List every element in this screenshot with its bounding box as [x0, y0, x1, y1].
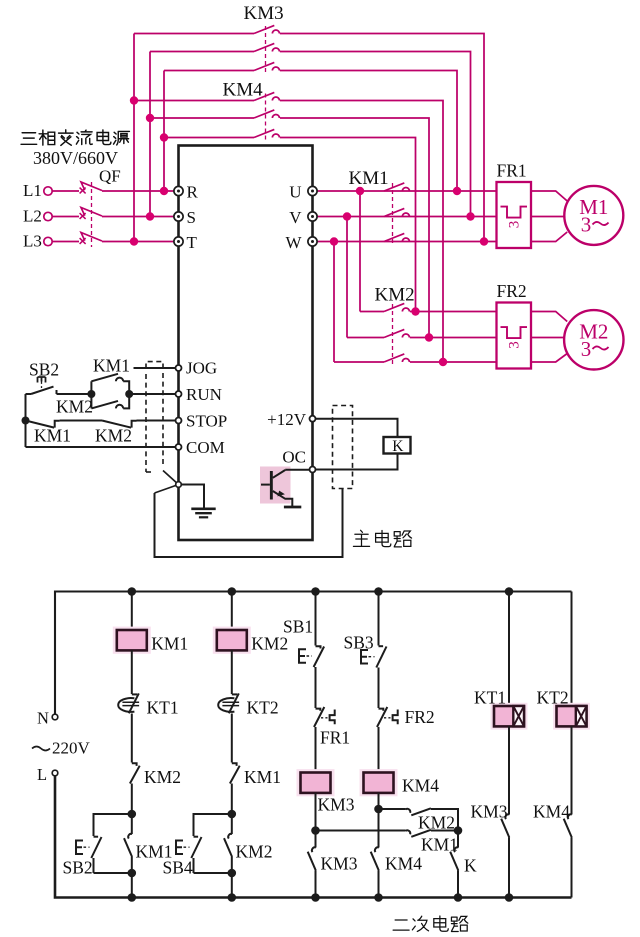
svg-text:STOP: STOP [186, 412, 227, 431]
svg-text:L3: L3 [23, 232, 42, 251]
relay K [384, 437, 411, 454]
node V drop [343, 212, 351, 220]
wire COM [26, 446, 176, 448]
contact KM1 interlock horizontal [316, 830, 406, 832]
svg-text:FR2: FR2 [497, 281, 527, 301]
svg-text:L: L [37, 765, 47, 784]
svg-text:SB3: SB3 [344, 633, 374, 653]
wire branch7 top [571, 592, 573, 707]
terminal +12V [310, 416, 316, 422]
terminal OC [310, 467, 316, 473]
terminal N [52, 714, 58, 720]
wires FR2 to motor M2 [531, 312, 567, 322]
svg-text:3: 3 [581, 337, 592, 361]
wire U to KM2 row1 drop [359, 191, 361, 312]
wire shield to bottom loop [155, 489, 343, 558]
svg-text:220V: 220V [52, 739, 91, 758]
contactor KM3 linkage [265, 26, 267, 73]
svg-text:KM2: KM2 [375, 285, 415, 306]
contact K NO [457, 831, 459, 848]
wire branch1 top [131, 592, 133, 631]
wire top rail secondary [55, 592, 572, 715]
svg-text:JOG: JOG [186, 359, 217, 378]
coil KM3 [297, 769, 335, 796]
wire branch1 bottom [131, 857, 133, 898]
breaker QF pole L1 [52, 190, 79, 192]
overload relay FR2 [497, 303, 532, 369]
contactor KM1 pole W [384, 233, 404, 241]
motor M2 [564, 310, 623, 369]
label secondary circuit [393, 920, 409, 930]
node run right [125, 390, 133, 398]
svg-text:V: V [289, 208, 302, 227]
terminal R [174, 186, 183, 195]
terminal STOP [176, 418, 182, 424]
wire W output [317, 241, 496, 243]
wire branch1 mid1 [131, 650, 133, 694]
wire V to KM2 row2 drop [346, 217, 348, 338]
svg-text:K: K [464, 856, 477, 876]
coil KT2 timer [553, 703, 590, 730]
svg-text:U: U [289, 183, 301, 202]
svg-text:KM4: KM4 [385, 854, 422, 874]
wire vertical T-phase riser [133, 34, 135, 242]
terminal L3 [44, 237, 52, 245]
terminal JOG [176, 365, 182, 371]
breaker QF pole L2 [52, 216, 79, 218]
wire vertical R-phase riser [163, 71, 165, 192]
wire KM2 row1 [360, 311, 384, 313]
wire KM3 row2 (S to V bypass) [150, 51, 254, 53]
node KM3 to V [466, 212, 474, 220]
breaker QF linkage [91, 182, 93, 247]
svg-text:3: 3 [507, 221, 523, 229]
wire interlock right [431, 809, 458, 831]
node run left [87, 390, 95, 398]
svg-text:SB2: SB2 [63, 858, 93, 878]
contactor KM1 pole V [384, 208, 404, 216]
svg-text:+12V: +12V [267, 410, 307, 429]
node stop rail [22, 417, 30, 425]
terminal W [308, 237, 317, 246]
terminal COM [176, 444, 182, 450]
svg-text:FR1: FR1 [497, 161, 527, 181]
contact KM1 jog parallel top branch [90, 381, 92, 394]
node KM4 to row3 [439, 358, 447, 366]
wire branch6 top [508, 592, 510, 707]
earth symbol inverter [181, 485, 204, 509]
contactor KM2 linkage [392, 304, 394, 365]
wire V output [317, 216, 496, 218]
wire K bottom [457, 871, 459, 898]
wire SB4 branch [194, 814, 232, 836]
coil KM4 [360, 769, 398, 796]
wire branch4 mid1 [378, 668, 380, 709]
contact KM1 selfhold [131, 814, 133, 834]
node KM3 to U [453, 187, 461, 195]
terminal RUN [176, 391, 182, 397]
coil KM1 [113, 627, 151, 654]
wire branch2 mid2 [231, 714, 233, 763]
node branch4 aux [374, 805, 383, 814]
wire +12V to K [316, 419, 398, 437]
terminal V [308, 212, 317, 221]
contact KM1 NC branch2 [232, 763, 237, 766]
terminal S [174, 212, 183, 221]
transistor OC output [260, 467, 291, 504]
wire to RUN [129, 393, 175, 395]
contact KT1 delayed NC [132, 693, 137, 695]
overload relay FR1 [497, 182, 532, 248]
terminal L2 [44, 212, 52, 220]
wire KM3 row1 (T to W bypass) [134, 33, 254, 35]
svg-text:KM4: KM4 [533, 802, 570, 822]
wire K to OC [316, 454, 398, 470]
wire JOG stub [134, 367, 176, 369]
wire branch3 top [315, 592, 317, 646]
wire SB2 branch [94, 814, 132, 836]
contact KM4 selfhold [375, 847, 379, 852]
svg-text:KM2: KM2 [144, 767, 181, 787]
svg-text:W: W [285, 233, 302, 252]
svg-text:FR1: FR1 [320, 728, 350, 748]
node branch3 aux [311, 826, 320, 835]
wire KM2 row3 [334, 361, 384, 363]
cable shield box K [333, 406, 353, 489]
wire branch1 mid3 [131, 784, 133, 815]
wire SB4 branch bottom [194, 872, 232, 874]
svg-text:KT2: KT2 [537, 688, 569, 708]
pushbutton SB2 [94, 836, 99, 838]
svg-text:S: S [187, 208, 196, 227]
node KM3 to W [480, 237, 488, 245]
svg-text:KM3: KM3 [244, 3, 284, 24]
wire branch4 mid2 [378, 727, 380, 773]
label main circuit [353, 530, 369, 546]
coil KT1 timer [491, 703, 528, 730]
svg-text:L1: L1 [23, 181, 42, 200]
pushbutton SB3 [379, 645, 384, 647]
inverter box [179, 146, 313, 541]
wire branch1 mid2 [131, 714, 133, 763]
svg-text:K: K [392, 438, 404, 455]
svg-text:KM1: KM1 [421, 835, 458, 855]
contact FR2 NC [379, 709, 384, 711]
wire KM4 row1 (T branch) [134, 100, 254, 102]
wire branch7 bottom [571, 838, 573, 898]
svg-text:KM1: KM1 [151, 634, 188, 654]
breaker QF pole L3 [52, 241, 79, 243]
node KM4 to row2 [425, 333, 433, 341]
contactor KM1 pole U [384, 183, 404, 191]
node U drop [356, 187, 364, 195]
wire branch3 mid3 [315, 793, 317, 848]
label three-phase AC source [21, 133, 37, 145]
node KM4 to row1 [411, 307, 419, 315]
wire branch7 mid [571, 726, 573, 814]
svg-text:KT1: KT1 [474, 688, 506, 708]
terminal L1 [44, 187, 52, 195]
svg-text:3: 3 [581, 213, 592, 237]
contactor KM1 linkage [392, 183, 394, 244]
svg-text:KM3: KM3 [321, 854, 358, 874]
wires FR1 to motor M1 [531, 191, 567, 201]
wire KM2 row2 [347, 337, 384, 339]
wire SB2 branch bottom [94, 872, 132, 874]
svg-text:COM: COM [186, 438, 225, 457]
cable shield box control [146, 362, 163, 369]
wire branch6 bottom [508, 838, 510, 898]
svg-text:SB4: SB4 [163, 858, 193, 878]
svg-text:KM2: KM2 [236, 842, 273, 862]
svg-text:KM4: KM4 [223, 80, 264, 101]
svg-text:FR2: FR2 [405, 707, 435, 727]
wire branch6 mid [508, 726, 510, 814]
contact KM3 for KT1 [505, 814, 509, 819]
wire W to KM2 row3 drop [333, 242, 335, 363]
svg-text:KM3: KM3 [318, 795, 355, 815]
terminal U [308, 186, 317, 195]
coil KM2 [213, 627, 251, 654]
wire branch2 mid1 [231, 650, 233, 694]
svg-text:KM2: KM2 [251, 634, 288, 654]
wire vertical S-phase riser [149, 52, 151, 217]
contact KT2 delayed NC [232, 693, 237, 695]
svg-text:KM2: KM2 [95, 426, 132, 446]
svg-text:KT1: KT1 [147, 698, 179, 718]
wire branch4 top [378, 592, 380, 646]
svg-text:SB1: SB1 [283, 617, 313, 637]
wire U output [317, 190, 496, 192]
terminal L [52, 770, 58, 776]
svg-text:KM1: KM1 [34, 426, 71, 446]
label 220V [32, 747, 50, 751]
contact KM2 interlock horizontal [379, 808, 406, 810]
contactor KM4 linkage [265, 94, 267, 141]
node W drop [330, 237, 338, 245]
terminal T [174, 237, 183, 246]
svg-text:3: 3 [507, 341, 523, 349]
wire KM4 row2 (S branch) [150, 117, 254, 119]
svg-text:380V/660V: 380V/660V [33, 148, 118, 168]
svg-text:KM3: KM3 [471, 802, 508, 822]
contact KM2 selfhold [231, 814, 233, 834]
wire branch3 mid2 [315, 727, 317, 773]
svg-text:KM4: KM4 [402, 776, 439, 796]
svg-text:L2: L2 [23, 207, 42, 226]
wire branch4 bottom [378, 871, 380, 898]
wire branch2 mid3 [231, 784, 233, 815]
wire branch3 bottom [315, 871, 317, 898]
node branch1 parallel bottom [128, 869, 137, 878]
node branch2 parallel top [228, 810, 237, 819]
node branch2 parallel bottom [228, 869, 237, 878]
svg-text:T: T [187, 233, 198, 252]
wire branch4 mid3 [378, 793, 380, 848]
wire branch2 bottom [231, 857, 233, 898]
wire stop rail [25, 394, 27, 447]
contact KM2 NC branch1 [132, 763, 137, 766]
wire branch3 mid1 [315, 667, 317, 708]
pushbutton SB1 NC [316, 646, 321, 648]
svg-text:N: N [37, 709, 49, 728]
svg-text:KT2: KT2 [247, 698, 279, 718]
wire KM4 row3 (R branch) [164, 137, 254, 139]
svg-text:RUN: RUN [186, 385, 222, 404]
motor M1 [564, 186, 623, 245]
node interlock [454, 826, 463, 835]
wire bottom rail secondary [55, 776, 572, 898]
svg-text:KM1: KM1 [244, 767, 281, 787]
node S riser junctions [146, 114, 154, 122]
contact FR1 NC [316, 709, 321, 711]
svg-text:KM2: KM2 [56, 397, 93, 417]
pushbutton SB4 [194, 836, 199, 838]
svg-text:KM1: KM1 [349, 168, 389, 189]
node T riser junctions [130, 96, 138, 104]
wire KM3 row3 (R to U bypass) [164, 70, 254, 72]
node R riser junctions [160, 133, 168, 141]
contact KM3 selfhold [312, 847, 316, 852]
svg-text:QF: QF [99, 167, 121, 186]
svg-text:OC: OC [282, 448, 306, 467]
terminal ground on box [155, 471, 179, 494]
wire branch2 top [231, 592, 233, 631]
node branch1 parallel top [128, 810, 137, 819]
contact KM4 for KT2 [568, 814, 572, 819]
svg-text:KM1: KM1 [93, 356, 130, 376]
svg-text:R: R [187, 183, 199, 202]
